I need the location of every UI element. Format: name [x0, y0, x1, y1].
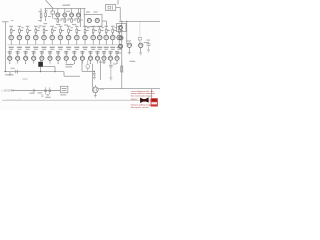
node row1-14	[112, 33, 113, 34]
wire U1 right link	[102, 20, 107, 22]
wire R13 top lead	[27, 27, 29, 29]
wire M2 drain rail	[98, 88, 160, 90]
label R111 value	[94, 29, 97, 32]
label R12	[18, 26, 22, 27]
capacitor C10 plates	[138, 38, 141, 44]
wire bottom gate rail	[12, 90, 61, 92]
label +12 +5V	[66, 64, 74, 65]
transistor Q111	[91, 33, 96, 45]
node diode join	[94, 71, 95, 72]
label Q44	[117, 52, 121, 55]
label R18	[67, 26, 71, 27]
label R13	[26, 26, 30, 27]
resistor R5c	[78, 19, 80, 22]
node row1-8	[68, 33, 69, 34]
node row1-9	[76, 33, 77, 34]
label below cluster	[56, 23, 61, 26]
label Q1 R4	[54, 17, 57, 20]
logo dark emblem	[140, 97, 149, 103]
label D1 1N4007	[5, 74, 14, 75]
resistor R12	[19, 29, 21, 32]
wire R2 leads	[45, 8, 47, 12]
label Q213	[102, 51, 106, 52]
logo red mark	[151, 98, 158, 106]
transistor Q40	[127, 43, 131, 47]
node row1-13	[106, 33, 107, 34]
wire R1 leads	[40, 8, 42, 13]
transistor Q17	[58, 33, 63, 45]
label row1 values band	[9, 47, 14, 48]
node row1-12	[99, 33, 100, 34]
label extra row1-6	[54, 26, 56, 29]
resistor R19	[76, 29, 78, 32]
transistor Q114	[110, 33, 115, 45]
label R17 value	[62, 29, 65, 32]
wire bottom border rail	[2, 99, 152, 101]
ground C8	[147, 50, 150, 52]
transistor Q110	[83, 33, 88, 45]
ground C4	[109, 78, 112, 80]
node row1-7	[60, 33, 61, 34]
label Q2c R5c	[75, 17, 78, 20]
transistor Q13	[25, 33, 30, 45]
resistor R5	[64, 19, 66, 22]
wire Q40 emitter	[128, 47, 130, 52]
transistor Q3 in U1	[87, 18, 91, 22]
wire R12 top lead	[18, 27, 20, 29]
label Q24	[32, 51, 36, 52]
label J1	[60, 93, 66, 96]
label Q2b R5b	[68, 17, 71, 20]
transistor M2 output	[92, 85, 98, 93]
capacitor C8	[147, 41, 151, 50]
label top-left lower	[38, 19, 41, 22]
label extra row1-8	[71, 26, 73, 29]
node row2-13	[104, 63, 105, 64]
resistor R4	[57, 19, 59, 22]
wire Q40 feeder	[126, 21, 128, 44]
wire R114 top lead	[112, 27, 114, 29]
wire M1 drain link	[43, 66, 55, 68]
transistor Q11	[9, 33, 14, 45]
transistor Q2	[63, 8, 67, 18]
transistor Q24	[32, 51, 36, 64]
connector J1 box	[61, 86, 68, 93]
transistor Q15	[42, 33, 47, 45]
wire left rail tap	[9, 72, 11, 76]
ground C3	[93, 78, 96, 80]
label R15 value	[45, 29, 48, 32]
label Q25	[40, 51, 44, 52]
label R19 value	[78, 29, 81, 32]
wire M1 source down	[40, 67, 42, 72]
label Q40	[126, 40, 131, 43]
transistor Q210	[80, 51, 84, 64]
label C5 C6	[45, 96, 50, 99]
label R115	[117, 26, 121, 27]
wire R17 top lead	[59, 27, 61, 29]
wire R19 top lead	[76, 27, 78, 29]
label R11	[9, 26, 13, 27]
transistor Q1	[56, 8, 60, 18]
resistor R115	[118, 29, 120, 32]
transistor Q22	[16, 51, 20, 64]
resistor R17	[60, 29, 62, 32]
label far top-left	[11, 19, 14, 22]
label Q212	[95, 51, 99, 52]
label watermark text red rows	[131, 90, 156, 109]
transistor Q18	[66, 33, 71, 45]
transistor Q214	[108, 51, 112, 64]
wire R14 top lead	[35, 27, 37, 29]
label R110 value	[86, 29, 89, 32]
node row2-3	[25, 63, 26, 64]
label left small	[11, 67, 15, 70]
label extra row1-10	[87, 26, 89, 29]
wire top-left stub	[2, 21, 9, 23]
capacitor C1	[51, 11, 54, 14]
transistor Q112	[97, 33, 102, 45]
node row1-3	[27, 33, 28, 34]
wire R111 top lead	[92, 27, 94, 29]
wire bottom-right vertical	[151, 89, 153, 99]
label R14 value	[37, 29, 40, 32]
wire x100 drop	[99, 60, 101, 80]
wire R115 top lead	[118, 27, 120, 29]
capacitor C2 inline	[16, 70, 18, 74]
ground Q41	[139, 53, 142, 55]
wire top-right horizontal rail	[119, 20, 160, 22]
label Q26	[48, 51, 52, 52]
wire Q41 riser	[139, 21, 141, 37]
label R113	[104, 26, 108, 27]
capacitor C7 small	[41, 95, 43, 96]
node mid rail junctions	[40, 71, 41, 72]
capacitor C5	[44, 87, 47, 94]
resistor R110	[84, 29, 86, 32]
wire M2 emitter down	[94, 93, 96, 96]
label R12 value	[21, 29, 24, 32]
capacitor C9 small	[33, 89, 34, 92]
ground M2	[94, 96, 97, 98]
label M2	[100, 88, 104, 91]
label C1	[48, 15, 51, 18]
label R111	[91, 26, 95, 27]
wire x64 step	[63, 72, 65, 77]
wire R11 top lead	[10, 27, 12, 29]
transistor Q213	[102, 51, 106, 64]
node row1-10	[84, 33, 85, 34]
resistor R16	[51, 29, 53, 32]
label Q27	[56, 51, 60, 52]
node row2-7	[58, 63, 59, 64]
capacitor C6	[49, 87, 52, 94]
transistor Q26	[48, 51, 52, 64]
resistor R30	[121, 66, 123, 72]
label bottom mid parts	[30, 93, 35, 94]
resistor R5b	[71, 19, 73, 22]
transistor Q211	[88, 51, 92, 64]
label extra row1-12	[102, 26, 104, 29]
wire X1 to right rail	[116, 6, 120, 8]
wire R112 top lead	[99, 27, 101, 29]
wire R30 on vertical	[121, 61, 123, 67]
label R15	[42, 26, 46, 27]
label R112	[98, 26, 102, 27]
label Q22	[16, 51, 20, 52]
node row1-2	[19, 33, 20, 34]
wire drop x80	[80, 8, 82, 27]
node row1-5	[43, 33, 44, 34]
transistor Q16	[50, 33, 55, 45]
wire mid-left rail	[4, 71, 64, 73]
node row1-15	[119, 33, 120, 34]
node row1-1	[11, 33, 12, 34]
node row2-11	[90, 63, 91, 64]
transistor Q12	[17, 33, 22, 45]
resistor R13	[27, 29, 29, 32]
wire R18 top lead	[68, 27, 70, 29]
label Q23	[24, 51, 28, 52]
ground C5 C6	[46, 95, 49, 97]
wire x55 tap	[54, 67, 56, 72]
wire R113 top lead	[105, 27, 107, 29]
wire C1 leads	[52, 8, 54, 11]
label R14	[34, 26, 38, 27]
label R17	[59, 26, 63, 27]
svg-text:2019 ©: 2019 ©	[131, 98, 138, 101]
label +12V net	[99, 62, 106, 63]
label +5V net	[130, 61, 136, 62]
capacitor C3	[93, 71, 96, 77]
label Q2 R5	[61, 17, 64, 20]
resistor R18	[68, 29, 70, 32]
label C8 top	[147, 39, 151, 42]
transistor Q42 in U2	[119, 26, 123, 30]
transistor Q2c	[76, 8, 80, 18]
wire diode join	[82, 70, 94, 72]
label R110	[83, 26, 87, 27]
label R18 value	[70, 29, 73, 32]
transistor Q115	[117, 33, 122, 45]
label top-left parts	[39, 11, 42, 12]
label U1 pins	[86, 12, 90, 13]
wire x82 drop	[81, 60, 83, 71]
node row2-15	[117, 63, 118, 64]
diode D2	[86, 60, 90, 71]
wire main right vertical	[121, 21, 123, 88]
power MOSFET M1 (filled)	[38, 60, 43, 67]
label Q28	[64, 51, 68, 52]
transistor Q41	[139, 43, 143, 47]
wire drop x84	[83, 8, 85, 14]
wire diagonal feed	[46, 0, 54, 8]
node row1-6	[52, 33, 53, 34]
resistor R113	[105, 29, 107, 32]
label R16 value	[53, 29, 56, 32]
wire Q41 emitter	[140, 48, 142, 54]
label extra row1-4	[38, 26, 40, 29]
label under tap	[23, 78, 28, 81]
resistor R114	[112, 29, 114, 32]
crystal X1 box	[106, 5, 116, 11]
label C4	[113, 63, 117, 66]
module U2 box	[117, 24, 127, 32]
transistor Q43	[119, 36, 123, 40]
label Q215	[115, 51, 119, 52]
wire M2 gate feed	[91, 64, 93, 88]
resistor R112	[99, 29, 101, 32]
transistor Q215	[115, 51, 119, 64]
wire top center bus	[45, 7, 86, 9]
capacitor C4	[109, 60, 112, 78]
ground Q40	[128, 53, 131, 55]
wire left supply rail	[5, 22, 7, 72]
label R19	[75, 26, 79, 27]
label extra row1-2	[21, 26, 23, 29]
resistor R2	[45, 13, 47, 17]
label top mid net	[63, 5, 71, 6]
transistor Q14	[34, 33, 39, 45]
label Q41	[144, 41, 148, 44]
label Q21	[8, 51, 12, 52]
wire row1 emitter bus	[8, 44, 123, 46]
node row1-4	[35, 33, 36, 34]
transistor Q25	[40, 51, 44, 64]
transistor Q19	[75, 33, 80, 45]
node row2-9	[74, 63, 75, 64]
transistor Q4 in U1	[95, 18, 99, 22]
label R16	[50, 26, 54, 27]
label Q214	[108, 51, 112, 52]
label R115 value	[120, 29, 123, 32]
resistor R15	[43, 29, 45, 32]
svg-text:free schematic images: free schematic images	[131, 95, 154, 98]
wire R16 top lead	[51, 27, 53, 29]
label Q210	[80, 51, 84, 52]
label R11 value	[12, 29, 15, 32]
connector J1 pins	[62, 87, 67, 90]
label Q29	[72, 51, 76, 52]
transistor Q212	[95, 51, 99, 64]
svg-text:all projects circuits: all projects circuits	[131, 106, 150, 109]
label Q211	[88, 51, 92, 52]
resistor R111	[92, 29, 94, 32]
transistor Q27	[56, 51, 60, 64]
label R114 value	[114, 29, 117, 32]
svg-text:L-MOSFET: L-MOSFET	[2, 89, 15, 92]
transistor Q23	[24, 51, 28, 64]
transistor Q21	[8, 51, 12, 64]
label R112 value	[101, 29, 104, 32]
node right vertical top	[121, 21, 122, 22]
resistor R14	[35, 29, 37, 32]
node row1-11	[93, 33, 94, 34]
wire X1 top stub	[117, 0, 119, 5]
module U1 box	[84, 15, 102, 27]
label R113 value	[107, 29, 110, 32]
label R114	[111, 26, 115, 27]
transistor Q113	[104, 33, 109, 45]
transistor Q28	[64, 51, 68, 64]
resistor R11	[10, 29, 12, 32]
resistor R1	[40, 14, 42, 18]
transistor Q2b	[70, 8, 74, 18]
crystal X1 inner	[108, 6, 111, 9]
wire R15 top lead	[43, 27, 45, 29]
node row2-5	[41, 63, 42, 64]
transistor Q29	[72, 51, 76, 64]
label R13 value	[29, 29, 32, 32]
svg-text:— — — — — 1: — — — — — 1	[6, 99, 22, 101]
node Q40 feeder	[126, 21, 127, 22]
wire R110 top lead	[84, 27, 86, 29]
transistor Q44	[119, 44, 123, 48]
label extra row1-14	[115, 26, 117, 29]
node row2-1	[9, 63, 10, 64]
